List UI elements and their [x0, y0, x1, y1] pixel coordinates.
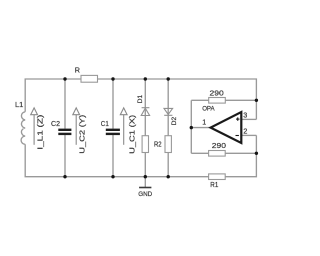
wire GND stub: [144, 177, 146, 187]
svg-text:290: 290: [210, 89, 224, 98]
wire D1 branch lower: [144, 153, 146, 177]
wire op-amp pin 2: [241, 134, 256, 136]
node top rail / C1: [111, 77, 114, 80]
wire 290 bottom right: [225, 152, 256, 154]
svg-text:R1: R1: [210, 180, 218, 189]
svg-text:C1: C1: [101, 119, 109, 128]
svg-text:U_C2 (Y): U_C2 (Y): [78, 114, 87, 154]
node bottom rail / C1: [111, 175, 114, 178]
voltage arrow U_C1: [120, 108, 127, 145]
current arrow I_L1: [31, 108, 38, 145]
wire D2 branch: [167, 79, 169, 136]
ground: [139, 187, 151, 189]
resistor 290 top: [209, 98, 226, 104]
wire D2 branch lower: [167, 153, 169, 177]
svg-text:C2: C2: [51, 119, 60, 128]
resistor 290 bottom: [209, 151, 226, 157]
svg-text:GND: GND: [138, 191, 152, 198]
svg-text:U_C1 (X): U_C1 (X): [127, 114, 136, 154]
wire 290 top left: [191, 99, 208, 101]
node bottom rail / D2: [167, 175, 170, 178]
wire C2 branch lower: [64, 135, 66, 177]
wire C1 branch upper: [112, 79, 114, 129]
voltage arrow U_C2: [73, 108, 80, 145]
node top rail / D2: [167, 77, 170, 80]
node bottom rail / D1 GND: [144, 175, 147, 178]
node right vertical / 290 bottom: [255, 152, 258, 155]
wire top rail right segment: [98, 79, 257, 119]
node top rail / D1: [144, 77, 147, 80]
resistor R: [81, 75, 98, 82]
svg-text:OPA: OPA: [202, 106, 215, 113]
diode D1: [141, 108, 149, 116]
svg-text:D2: D2: [171, 117, 178, 126]
svg-text:R2: R2: [154, 140, 162, 149]
diode D2: [164, 108, 173, 115]
svg-text:L1: L1: [15, 100, 23, 109]
capacitor C1: [106, 130, 120, 134]
resistor R2: [165, 136, 171, 153]
node right vertical / 290 top: [255, 99, 258, 102]
wire bottom rail right: [225, 135, 256, 176]
node bottom rail / C2: [63, 175, 66, 178]
svg-text:D1: D1: [137, 95, 144, 104]
wire top rail left segment: [25, 79, 81, 112]
wire C1 branch lower: [112, 135, 114, 177]
svg-text:1: 1: [202, 118, 206, 127]
svg-text:I_L1 (Z): I_L1 (Z): [35, 114, 44, 150]
capacitor C2: [58, 130, 71, 134]
svg-text:2: 2: [243, 126, 247, 135]
wire bottom rail left: [25, 176, 209, 178]
resistor R1: [209, 174, 226, 180]
node top rail / C2: [63, 77, 66, 80]
wire op-amp output pin 1: [191, 127, 210, 129]
wire op-amp pin 3: [241, 118, 256, 120]
op-amp minus sign: [236, 135, 239, 137]
inductor L1: [21, 112, 25, 145]
wire C2 branch upper: [64, 79, 66, 129]
wire op-amp feedback left vertical: [190, 100, 192, 153]
svg-text:R: R: [75, 65, 80, 74]
node output pin 1: [190, 126, 193, 129]
wire 290 bottom left: [191, 152, 208, 154]
resistor under D1: [142, 136, 148, 153]
wire left rail lower: [24, 144, 26, 176]
wire 290 top right: [225, 99, 256, 101]
svg-text:3: 3: [243, 110, 247, 119]
op-amp plus sign: [236, 117, 240, 121]
op-amp U1 triangle: [211, 112, 242, 143]
svg-text:290: 290: [212, 141, 226, 150]
wire D1 branch: [144, 79, 146, 136]
